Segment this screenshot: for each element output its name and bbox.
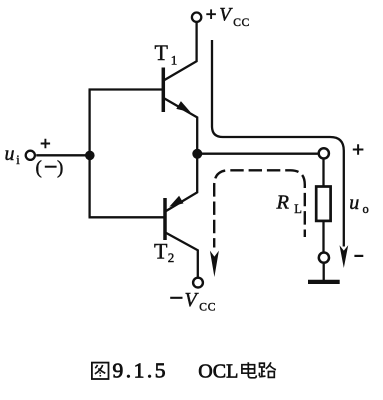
label (-) input: [36, 158, 64, 179]
svg-text:9.1.5: 9.1.5: [113, 358, 169, 382]
label u_i: [5, 143, 21, 167]
hanzi 路: [259, 362, 276, 377]
svg-text:T: T: [155, 40, 169, 65]
solid current path (positive half-cycle) with u_o arrow: [212, 40, 348, 268]
label + (output): [353, 144, 364, 155]
svg-text:i: i: [16, 153, 20, 167]
label u_o: [349, 192, 368, 216]
svg-text:T: T: [154, 239, 168, 264]
wire terminal to ground: [323, 264, 325, 280]
input terminal u_i: [26, 151, 35, 160]
wire T1 base: [89, 88, 163, 90]
label -Vcc: [170, 297, 182, 299]
svg-text:o: o: [363, 202, 369, 216]
label +Vcc: [206, 9, 216, 19]
svg-text:1: 1: [171, 53, 178, 68]
svg-text:R: R: [276, 192, 290, 214]
output terminal -: [319, 253, 329, 263]
wire left vertical bus: [88, 90, 90, 218]
wire output to terminal: [197, 153, 317, 155]
svg-text:u: u: [5, 143, 15, 165]
hanzi 电: [242, 362, 256, 378]
label R_L: [276, 192, 302, 217]
svg-text:V: V: [185, 289, 200, 311]
label - (output): [354, 255, 363, 257]
node output junction: [192, 149, 202, 159]
label + (input polarity): [41, 139, 50, 148]
svg-text:V: V: [219, 4, 233, 25]
svg-text:): ): [57, 158, 63, 179]
label T2: [154, 239, 174, 266]
svg-text:u: u: [349, 192, 359, 214]
resistor R_L: [316, 187, 330, 221]
hanzi 图: [92, 363, 109, 379]
svg-text:(: (: [36, 158, 42, 179]
wire input to junction: [36, 154, 90, 156]
node input junction: [85, 151, 95, 161]
dashed current path (negative half-cycle): [210, 170, 305, 277]
svg-text:L: L: [294, 202, 302, 216]
wire R_L to bottom terminal: [322, 221, 324, 252]
wire T2 base: [89, 216, 164, 218]
ground: [308, 280, 340, 284]
wire terminal to R_L: [322, 160, 324, 187]
svg-text:OCL: OCL: [198, 360, 238, 382]
caption: 图 9.1.5 OCL 电路: [92, 358, 276, 382]
output terminal +: [319, 148, 329, 158]
label T1: [155, 40, 178, 68]
svg-text:CC: CC: [199, 301, 216, 313]
svg-text:CC: CC: [233, 17, 250, 29]
transistor T1: [163, 23, 197, 155]
-Vcc terminal: [193, 278, 203, 288]
transistor T2: [165, 154, 198, 277]
+Vcc terminal: [192, 13, 201, 22]
caption OCL: [198, 360, 238, 382]
caption digits 9.1.5: [113, 358, 169, 382]
svg-text:2: 2: [168, 250, 175, 265]
